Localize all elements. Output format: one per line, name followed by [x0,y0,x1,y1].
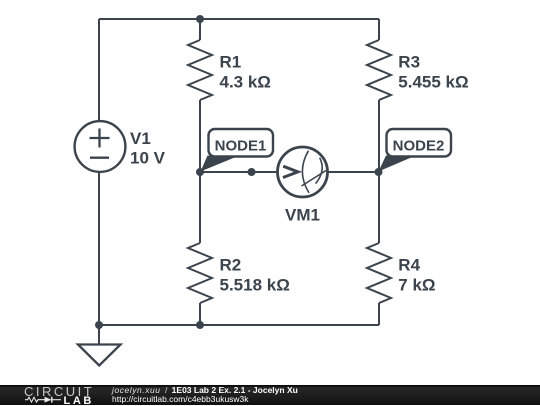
wire NODE2 to R4 [378,172,380,243]
voltage source V1 [75,121,126,172]
svg-text:NODE1: NODE1 [215,137,267,154]
wire NODE1 to voltmeter [200,171,278,173]
wire top rail [99,18,379,20]
svg-text:LAB: LAB [64,395,94,406]
wire left rail upper (V1 top lead) [98,19,100,121]
resistor R4 [367,243,391,303]
resistor R2 [188,243,212,303]
junction dot top of R1 [196,15,204,23]
svg-text:R2: R2 [220,255,242,274]
CircuitLab logo [0,385,100,406]
junction dot ground rail [95,321,103,329]
wire left rail lower (V1 bottom lead) [98,172,100,325]
node NODE2 callout [379,129,452,172]
junction dot bottom of R2 [196,321,204,329]
junction dot voltmeter left terminal [248,168,256,176]
wire R2 top lead from NODE1 [199,172,201,243]
resistor R3 [367,40,391,100]
wire bottom rail [99,324,379,326]
svg-text:R3: R3 [398,52,420,71]
ground stem [98,325,100,345]
footer bar [0,385,540,406]
resistor R1 [188,40,212,100]
svg-text:V1: V1 [130,129,151,148]
wire R3 top lead [378,19,380,40]
svg-text:R1: R1 [220,52,242,71]
wire voltmeter to NODE2 [328,171,379,173]
voltmeter VM1 [278,147,328,197]
node NODE2 junction dot [375,168,383,176]
svg-text:4.3 kΩ: 4.3 kΩ [220,72,271,91]
node NODE1 callout [201,129,274,172]
svg-text:NODE2: NODE2 [393,137,445,154]
svg-text:5.455 kΩ: 5.455 kΩ [398,72,468,91]
svg-text:10 V: 10 V [130,149,166,168]
svg-text:5.518 kΩ: 5.518 kΩ [220,275,290,294]
svg-text:7 kΩ: 7 kΩ [398,275,435,294]
wire R3 bottom lead to NODE2 [378,100,380,172]
node NODE1 junction dot [196,168,204,176]
wire R1 top lead [199,19,201,40]
svg-text:R4: R4 [398,255,420,274]
wire R4 bottom lead [378,303,380,325]
footer title text [112,386,298,404]
wire R2 bottom lead [199,303,201,325]
wire R1 bottom lead to NODE1 [199,100,201,172]
ground [78,345,121,366]
svg-text:VM1: VM1 [285,206,320,225]
